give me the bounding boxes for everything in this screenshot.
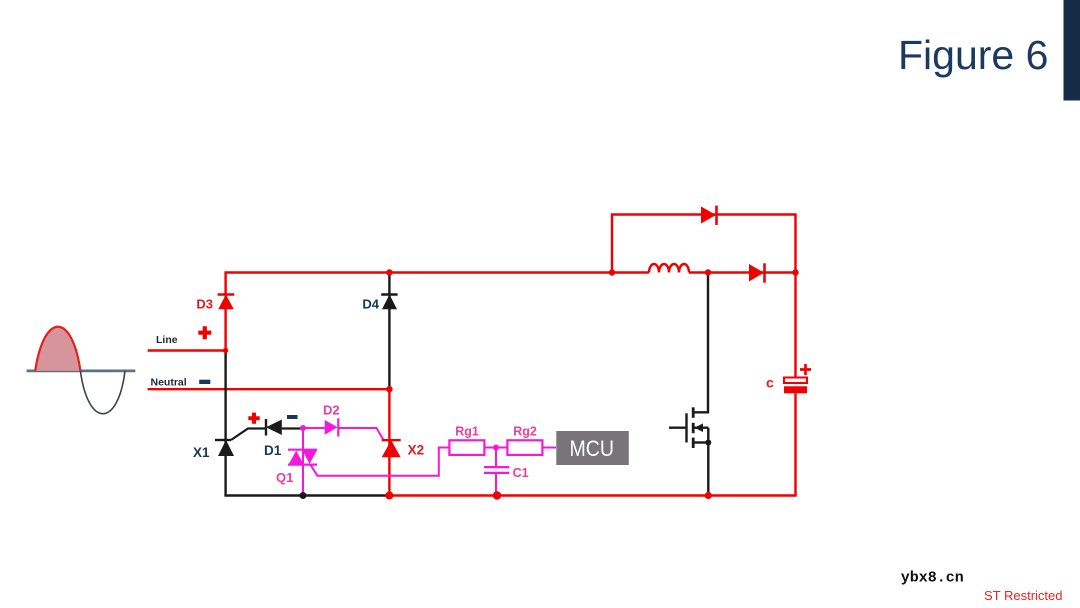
- diode boost output (red): [749, 263, 765, 282]
- diode D4: [381, 295, 397, 310]
- svg-text:ybx8.cn: ybx8.cn: [901, 570, 964, 587]
- sine-wave negative half: [80, 371, 125, 414]
- wire bottom rail right section (red): [389, 494, 796, 496]
- junction dot top rail / D4: [386, 269, 392, 275]
- svg-text:ST Restricted: ST Restricted: [984, 588, 1063, 603]
- junction dot top rail / MOSFET drain: [705, 269, 711, 275]
- thyristor X1: [215, 440, 234, 456]
- junction dot Rg1 / Rg2 / C1 (magenta): [493, 445, 499, 451]
- MCU block: [556, 431, 629, 465]
- triac Q1: [288, 450, 317, 465]
- wire Line (red): [148, 349, 226, 351]
- wire bottom rail left section (black): [224, 494, 389, 496]
- junction dot bottom rail / X2: [385, 492, 393, 500]
- svg-text:D2: D2: [323, 402, 340, 417]
- polarity plus (D1 anode): [248, 413, 259, 424]
- junction dot top rail / bypass left: [609, 269, 615, 275]
- svg-text:Rg2: Rg2: [513, 424, 537, 438]
- thyristor X2: [382, 440, 401, 457]
- wire top bypass branch (red): [612, 215, 796, 273]
- diode D4 vertical wire (black): [388, 273, 390, 390]
- wire inductor rail segments (red): [612, 271, 796, 273]
- resistor Rg2: [507, 440, 542, 455]
- wire Rg1 to Rg2 (magenta): [484, 447, 507, 449]
- svg-text:C1: C1: [513, 466, 529, 480]
- capacitor C bottom plate: [784, 386, 807, 393]
- svg-text:Line: Line: [156, 334, 178, 346]
- wire Q1 anode vertical (magenta): [302, 428, 304, 496]
- inductor L: [649, 264, 689, 273]
- wire D2 to X2 (magenta): [338, 428, 383, 440]
- diode top bypass (red): [701, 206, 717, 225]
- resistor Rg1: [449, 440, 484, 455]
- polarity minus (D1 cathode): [287, 415, 298, 419]
- diode D1: [266, 419, 282, 436]
- wire C1 bottom lead (magenta): [495, 473, 497, 496]
- junction dot Neutral / D4-X2: [386, 386, 392, 392]
- wire Q1 gate to Rg1 (magenta): [310, 448, 449, 476]
- junction dot top rail / bypass right: [792, 269, 798, 275]
- wire C1 top lead (magenta): [495, 448, 497, 468]
- svg-text:D3: D3: [196, 297, 213, 312]
- capacitor C1: [484, 467, 509, 473]
- svg-text:Neutral: Neutral: [151, 376, 187, 388]
- transistor Q MOSFET: [669, 407, 708, 448]
- svg-text:D1: D1: [264, 443, 282, 458]
- wire right vertical above capacitor (red): [794, 273, 796, 379]
- wire Neutral (red): [148, 388, 390, 390]
- header right navy bar: [1064, 0, 1080, 101]
- capacitor C top plate: [784, 378, 807, 384]
- wire X1 cathode to D1 (black): [231, 429, 301, 441]
- svg-text:Figure 6: Figure 6: [898, 32, 1048, 78]
- svg-text:Rg1: Rg1: [455, 424, 479, 438]
- sine-wave icon axis: [27, 370, 136, 373]
- wire D1 to D2 (magenta): [303, 427, 325, 429]
- sine-wave positive half (red filled): [35, 327, 80, 371]
- svg-text:D4: D4: [362, 297, 379, 312]
- capacitor C plus sign: [800, 364, 811, 375]
- MOSFET drain wire (black): [693, 273, 708, 413]
- junction dot bottom rail / MOSFET source: [705, 492, 712, 499]
- polarity plus (Line): [198, 326, 211, 339]
- junction dot bottom rail / C1: [493, 491, 501, 499]
- junction dot bottom rail / Q1 (black): [300, 492, 307, 499]
- MOSFET source wire (black): [707, 428, 709, 496]
- svg-text:X1: X1: [193, 445, 210, 460]
- diode D3: [218, 295, 235, 310]
- wire X1 branch vertical (black): [224, 351, 226, 496]
- wire right vertical below capacitor (red): [794, 393, 796, 495]
- wire Rg2 to MCU (magenta): [542, 447, 556, 449]
- junction dot D1 / D2 / Q1 (magenta): [300, 425, 306, 431]
- diode D2: [325, 418, 339, 436]
- wire X2 branch vertical (red): [388, 389, 390, 495]
- svg-text:c: c: [766, 375, 774, 391]
- polarity minus (Neutral): [199, 380, 210, 384]
- svg-text:MCU: MCU: [569, 436, 614, 461]
- junction dot Line / D3 branch: [223, 348, 228, 353]
- svg-text:X2: X2: [408, 443, 425, 458]
- svg-text:Q1: Q1: [276, 470, 293, 485]
- junction dot MOSFET source/body: [705, 440, 711, 446]
- wire left vertical + top rail (red): [226, 273, 612, 351]
